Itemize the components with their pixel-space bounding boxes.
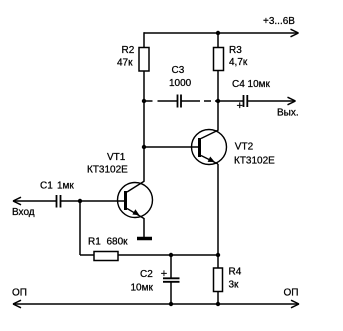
- wire VT1 collector column: [143, 71, 145, 181]
- svg-text:C4 10мк: C4 10мк: [232, 79, 271, 90]
- wire C2 bottom: [170, 283, 172, 305]
- node R1 / C2: [169, 253, 173, 257]
- capacitor C4: [232, 79, 271, 112]
- wire C3 right dashes: [182, 100, 201, 102]
- wire C4 to output arrow: [248, 100, 296, 102]
- svg-text:+3...6В: +3...6В: [263, 16, 295, 27]
- wire C3 left dashes: [144, 100, 153, 102]
- svg-text:10мк: 10мк: [131, 283, 154, 294]
- node supply arrow: [291, 29, 299, 37]
- wire R1 to node B: [118, 254, 218, 256]
- svg-text:680к: 680к: [107, 237, 129, 248]
- node VT2 base tap: [142, 145, 146, 149]
- svg-text:ОП: ОП: [284, 288, 299, 299]
- node top rail / R3: [216, 31, 220, 35]
- node VT2 emitter / R4: [216, 253, 220, 257]
- wire R3 bottom to VT2 collector: [217, 71, 219, 131]
- wire C1 to VT1 base: [61, 200, 125, 202]
- wire node A down to R1: [79, 201, 81, 255]
- svg-text:47к: 47к: [117, 58, 133, 69]
- svg-text:3к: 3к: [229, 280, 240, 291]
- node input arrow: [13, 197, 21, 205]
- resistor R4: [214, 267, 242, 292]
- svg-text:C3: C3: [172, 65, 185, 76]
- svg-text:C2: C2: [140, 269, 153, 280]
- svg-text:R1: R1: [88, 237, 101, 248]
- svg-text:КТ3102Е: КТ3102Е: [234, 156, 275, 167]
- wire R3 top: [217, 33, 219, 48]
- node C3 left: [142, 99, 146, 103]
- resistor R3: [214, 45, 248, 71]
- transistor VT2: [192, 130, 276, 167]
- node C2 bottom rail: [169, 302, 173, 306]
- svg-text:R4: R4: [229, 267, 242, 278]
- svg-text:1мк: 1мк: [57, 181, 74, 192]
- svg-text:КТ3102Е: КТ3102Е: [87, 165, 128, 176]
- wire input to C1: [14, 200, 56, 202]
- svg-text:ОП: ОП: [12, 288, 27, 299]
- svg-text:C1: C1: [40, 181, 53, 192]
- svg-text:Вход: Вход: [12, 207, 35, 218]
- svg-text:VT2: VT2: [235, 142, 254, 153]
- wire R4 bottom: [217, 292, 219, 305]
- node C3 right / C4: [216, 99, 220, 103]
- svg-text:R3: R3: [229, 45, 242, 56]
- wire top supply rail: [144, 32, 298, 34]
- svg-text:R2: R2: [122, 45, 135, 56]
- wire bottom common rail: [15, 303, 298, 305]
- node R4 bottom rail: [216, 302, 220, 306]
- wire VT2 base from VT1 collector: [144, 146, 198, 148]
- node C1 / VT1 base / R1: [78, 199, 82, 203]
- svg-text:+: +: [161, 268, 167, 280]
- svg-text:4,7к: 4,7к: [229, 57, 248, 68]
- resistor R1: [88, 237, 128, 261]
- svg-text:1000: 1000: [169, 78, 192, 89]
- transistor VT1: [87, 152, 153, 219]
- capacitor C3: [169, 65, 192, 108]
- ground: [137, 237, 152, 241]
- wire C4 node to plates: [215, 100, 243, 102]
- wire R4 top: [217, 255, 219, 268]
- svg-text:Вых.: Вых.: [277, 108, 299, 119]
- wire VT1 emitter to ground: [143, 218, 145, 238]
- node common right arrow: [291, 300, 299, 308]
- node common left arrow: [13, 300, 21, 308]
- capacitor C1: [40, 181, 74, 208]
- wire C2 top: [170, 255, 172, 278]
- svg-text:VT1: VT1: [107, 152, 126, 163]
- node output arrow: [288, 97, 296, 105]
- wire R2 top: [143, 32, 145, 47]
- wire VT2 emitter down: [217, 164, 219, 255]
- resistor R2: [117, 45, 149, 71]
- capacitor C2: [131, 268, 180, 294]
- svg-text:+: +: [237, 100, 243, 112]
